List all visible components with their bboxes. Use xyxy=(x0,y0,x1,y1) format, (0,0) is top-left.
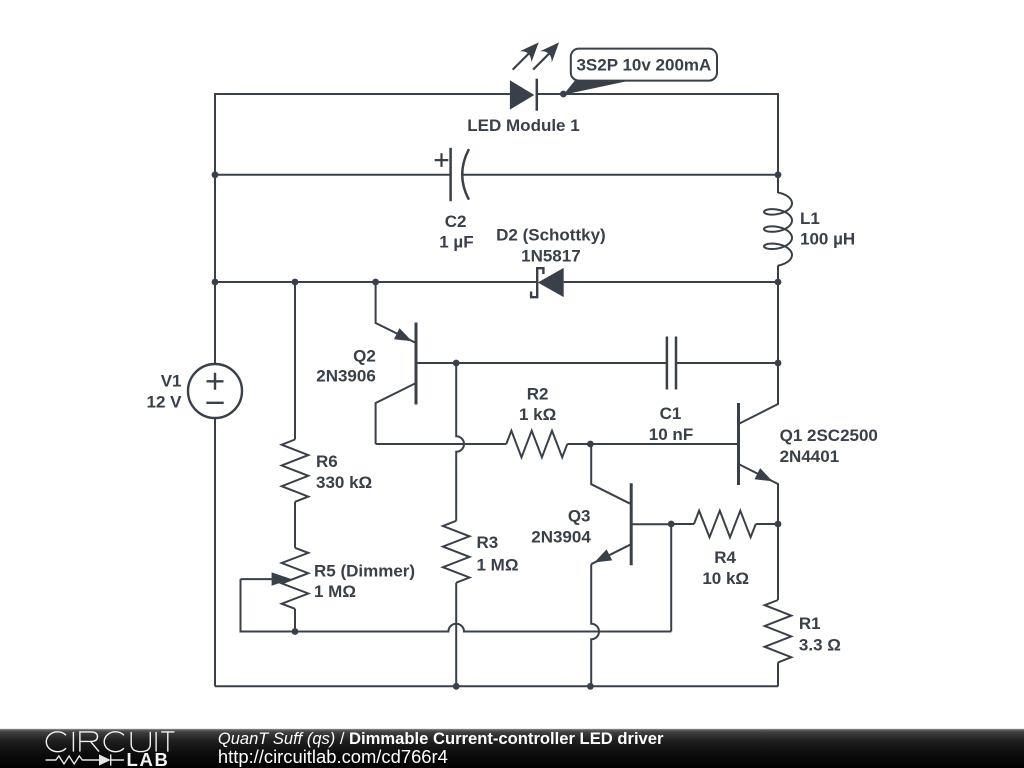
diode D2 Schottky xyxy=(531,268,564,297)
wire bottom rail xyxy=(215,685,778,687)
svg-text:R6: R6 xyxy=(316,452,338,471)
wire R5 wiper lead xyxy=(241,578,276,580)
wire right rail L1 to C1 node xyxy=(777,282,779,363)
svg-text:2N3906: 2N3906 xyxy=(316,367,376,386)
svg-text:D2 (Schottky): D2 (Schottky) xyxy=(496,226,606,245)
svg-text:L1: L1 xyxy=(800,209,820,228)
svg-text:C2: C2 xyxy=(445,212,467,231)
node LED callout tap xyxy=(560,91,567,98)
svg-text:100 µH: 100 µH xyxy=(800,230,855,249)
svg-text:330 kΩ: 330 kΩ xyxy=(316,473,372,492)
svg-text:12 V: 12 V xyxy=(147,393,183,412)
node Q2 base R3 xyxy=(453,360,460,367)
svg-text:R4: R4 xyxy=(714,548,736,567)
svg-text:LED Module 1: LED Module 1 xyxy=(467,116,579,135)
svg-text:1 kΩ: 1 kΩ xyxy=(519,405,556,424)
wire C2 rail right xyxy=(462,174,778,176)
svg-text:1 MΩ: 1 MΩ xyxy=(477,555,519,574)
resistor R4 xyxy=(671,511,778,538)
svg-text:R3: R3 xyxy=(477,533,499,552)
capacitor C1 xyxy=(667,337,676,390)
potentiometer R5 (Dimmer) xyxy=(272,548,309,632)
wire top rail right + right rail drop xyxy=(537,94,778,175)
svg-text:1N5817: 1N5817 xyxy=(521,246,581,265)
resistor R1 xyxy=(765,524,792,686)
svg-text:3S2P 10v 200mA: 3S2P 10v 200mA xyxy=(576,55,711,74)
resistor R3 with hop xyxy=(443,363,470,686)
node right rail D2 xyxy=(775,279,782,286)
wire C1 rail right xyxy=(676,362,778,364)
node right rail C2 xyxy=(775,171,782,178)
transistor Q2 2N3906 (PNP) xyxy=(376,282,457,444)
svg-text:R1: R1 xyxy=(799,614,821,633)
inductor L1 (coil) xyxy=(764,175,792,282)
transistor Q3 2N3904 (NPN) xyxy=(591,444,671,686)
wire left rail lower xyxy=(214,418,216,686)
svg-text:2N3904: 2N3904 xyxy=(531,527,591,546)
node Q3 emitter bottom xyxy=(587,683,594,690)
wire riser to Q3 base node xyxy=(670,524,672,632)
wire Q3 emitter with hop xyxy=(591,564,599,686)
resistor R2 xyxy=(376,431,568,458)
svg-text:10 kΩ: 10 kΩ xyxy=(702,569,749,588)
node C1 Q1 collector xyxy=(775,360,782,367)
svg-text:1 µF: 1 µF xyxy=(439,233,473,252)
svg-text:V1: V1 xyxy=(161,372,182,391)
wire D2 rail right xyxy=(564,281,778,283)
svg-text:1 MΩ: 1 MΩ xyxy=(314,582,356,601)
svg-text:http://circuitlab.com/cd766r4: http://circuitlab.com/cd766r4 xyxy=(218,746,448,767)
LED module (diode symbol with emission arrows) xyxy=(510,42,559,110)
node Q2 emitter tap xyxy=(372,279,379,286)
wire R2 to Q1 base xyxy=(567,443,738,445)
svg-text:3.3 Ω: 3.3 Ω xyxy=(799,636,841,655)
svg-text:LAB: LAB xyxy=(127,749,170,768)
svg-text:Q2: Q2 xyxy=(353,346,376,365)
svg-text:Q1 2SC2500: Q1 2SC2500 xyxy=(780,426,878,445)
node Q1 emitter R4 R1 xyxy=(775,521,782,528)
wire top rail left + left rail upper xyxy=(215,94,510,364)
node R3 bottom xyxy=(453,683,460,690)
CircuitLab logo resistor glyph xyxy=(46,754,125,765)
svg-text:2N4401: 2N4401 xyxy=(780,447,840,466)
svg-text:C1: C1 xyxy=(660,404,682,423)
node Q3 base R4 xyxy=(668,521,675,528)
wire C1 rail left xyxy=(456,362,667,364)
wire R5 wiper down + dimmer rail with hop over R3 xyxy=(241,579,672,631)
wire C2 rail left xyxy=(215,174,451,176)
resistor R6 xyxy=(282,282,309,548)
node R5 bottom xyxy=(292,628,299,635)
CircuitLab logo diode glyph xyxy=(111,754,124,765)
svg-text:R2: R2 xyxy=(527,384,549,403)
transistor Q1 2SC2500 (NPN) xyxy=(739,363,779,524)
node left rail D2 xyxy=(212,279,219,286)
svg-text:Q3: Q3 xyxy=(568,506,591,525)
voltage source V1 xyxy=(188,364,242,418)
capacitor C2 (polarized) xyxy=(435,148,469,201)
annotation callout 3S2P 10v 200mA xyxy=(563,49,717,95)
node left rail C2 xyxy=(212,171,219,178)
CircuitLab logo word CIRCUIT xyxy=(46,732,174,752)
node R2 Q3 collector xyxy=(587,441,594,448)
svg-text:10 nF: 10 nF xyxy=(649,425,693,444)
wire D2 rail left xyxy=(215,281,536,283)
node R6 top xyxy=(292,279,299,286)
svg-text:R5 (Dimmer): R5 (Dimmer) xyxy=(314,561,415,580)
